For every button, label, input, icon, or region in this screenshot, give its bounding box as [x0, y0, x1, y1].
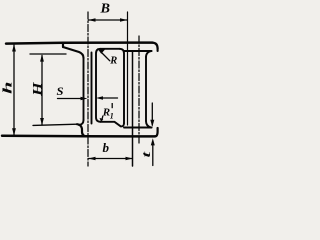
R1 leader line [102, 116, 103, 120]
arrowhead s right [96, 96, 103, 100]
arrowhead R1 [100, 118, 104, 122]
top flange right corner [153, 43, 158, 49]
extension line B right [127, 12, 129, 125]
centerline left web (dash-dot) [87, 12, 89, 166]
arrowhead s left [81, 97, 88, 101]
svg-text:R: R [109, 56, 117, 67]
arrowhead t down [150, 120, 154, 127]
svg-text:B: B [99, 1, 110, 16]
dimension b line [89, 158, 133, 160]
right flange underside [124, 50, 152, 52]
arrowhead t up [151, 138, 155, 145]
top flange outer face [6, 43, 153, 44]
R leader line [102, 53, 110, 61]
arrowhead R [97, 48, 105, 54]
cavity left wall with fillets R top and R1 bottom [96, 49, 101, 122]
dimension H line [41, 56, 43, 125]
prime tick above R1 [111, 103, 113, 108]
s dimension leader left [58, 98, 82, 100]
svg-text:b: b [103, 140, 110, 155]
bottom-left elbow [77, 124, 87, 136]
svg-text:S: S [57, 86, 64, 98]
fillet bottom right web [146, 121, 152, 128]
arrowheads b [88, 157, 95, 161]
s dimension leader right [103, 97, 118, 99]
right web inner face / b extension [132, 51, 134, 166]
right bottom tip face [155, 128, 158, 136]
arrowheads h [12, 44, 16, 51]
fillet into right web outer face [146, 51, 152, 57]
left web outer face [83, 58, 85, 120]
bottom flange topside right [124, 127, 152, 129]
dimension h line [13, 45, 15, 135]
arrowheads H [40, 54, 44, 61]
centerline right web (dash-dot) [138, 36, 140, 143]
svg-text:h: h [0, 82, 15, 95]
svg-text:1: 1 [110, 111, 114, 120]
top flange left tip face [62, 43, 64, 47]
cavity right wall [120, 49, 125, 123]
bottom-left lip top line [33, 124, 77, 125]
svg-text:H: H [30, 81, 45, 97]
right web outer face [145, 57, 147, 121]
left web inner line [91, 53, 93, 124]
arrowheads B [88, 18, 95, 22]
t dimension upper arrow shaft [151, 103, 153, 125]
cavity bottom face [101, 122, 125, 127]
right tip face [157, 49, 159, 52]
cavity top face [101, 48, 120, 50]
t dimension lower arrow shaft [152, 144, 154, 166]
bottom flange outer face [2, 135, 155, 138]
top-left flange underside slope [63, 47, 84, 58]
fillet bottom left web [79, 120, 84, 125]
extension H top [30, 53, 66, 55]
dimension B line with arrows [89, 19, 128, 21]
